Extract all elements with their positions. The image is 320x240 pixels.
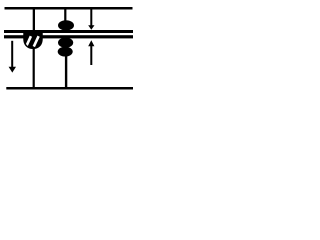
hatched weight slash 1 <box>26 36 31 46</box>
center rod lower segment <box>65 55 67 88</box>
down arrow right: head <box>88 25 94 30</box>
hatched weight rim <box>24 34 42 49</box>
bead 2 (below plate) <box>58 38 73 48</box>
down arrow right: shaft <box>90 9 92 26</box>
down arrow left: head <box>9 67 16 73</box>
top support rail <box>5 7 133 10</box>
up arrow right: head <box>88 40 94 46</box>
hatched weight slash 2 <box>34 36 39 46</box>
bead 3 (bottom of stack) <box>58 47 73 57</box>
left rod lower segment <box>33 47 35 88</box>
floor line <box>6 87 133 90</box>
center rod upper segment <box>64 9 66 23</box>
down arrow left: shaft <box>11 41 13 68</box>
background <box>0 0 139 98</box>
bead 1 (above plate) <box>58 20 74 30</box>
up arrow right: shaft <box>90 46 92 66</box>
upper shelf line of double plate <box>4 30 133 33</box>
hatched weight body <box>24 34 42 49</box>
left rod upper segment <box>33 9 35 31</box>
lower shelf line of double plate <box>4 35 133 38</box>
